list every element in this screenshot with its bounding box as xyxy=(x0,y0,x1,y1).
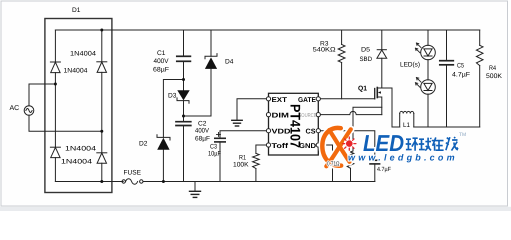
svg-text:R4: R4 xyxy=(489,65,496,72)
pin VDD terminal xyxy=(266,129,270,133)
wire: SOURCE pin to Q1 source (with hop) xyxy=(320,111,381,114)
inductor L1 xyxy=(400,111,414,127)
svg-text:EXT: EXT xyxy=(272,97,288,104)
capacitor C5 xyxy=(440,30,454,127)
diode D5 SBD xyxy=(377,30,387,88)
svg-text:D2: D2 xyxy=(139,141,148,148)
red starburst xyxy=(343,137,356,150)
capacitor C1 xyxy=(177,30,191,80)
fuse xyxy=(122,179,143,184)
wire: LED1-LED2 xyxy=(427,60,429,81)
svg-text:500K: 500K xyxy=(486,73,503,80)
pin DIM terminal xyxy=(266,113,270,117)
IC pin circles xyxy=(266,97,320,147)
wire: bridge inner top xyxy=(55,29,101,31)
svg-text:4.7µF: 4.7µF xyxy=(452,72,470,79)
pin EXT terminal xyxy=(266,97,270,101)
svg-text:10µF: 10µF xyxy=(208,151,221,158)
svg-text:400V: 400V xyxy=(154,58,170,65)
svg-text:D1: D1 xyxy=(72,7,81,14)
svg-text:68µF: 68µF xyxy=(195,136,210,143)
svg-text:0.71Ω: 0.71Ω xyxy=(327,161,340,168)
pin Toff terminal xyxy=(266,143,270,147)
pin CS terminal xyxy=(316,129,320,133)
diode D4 (zener, filled) xyxy=(205,30,217,69)
svg-text:4.7µF: 4.7µF xyxy=(377,166,391,173)
bottom gray strip xyxy=(0,207,511,211)
diode 1N4004 bottom-right xyxy=(97,153,107,163)
wire: sense branch from source node xyxy=(351,107,382,152)
wire: bridge inner left vertical xyxy=(54,30,56,62)
bridge rectifier box D1 xyxy=(45,19,112,193)
LED2 xyxy=(415,78,435,95)
node: bridge + output junction xyxy=(100,29,103,32)
wire: GND pin to rail xyxy=(320,145,332,182)
diode 1N4004 top-left xyxy=(50,62,60,73)
svg-text:C2: C2 xyxy=(198,121,207,128)
wire: CS pin to filter cap xyxy=(320,131,374,161)
svg-text:C5: C5 xyxy=(457,63,464,70)
logo X orange swooshes xyxy=(322,128,341,166)
node: AC live to bridge left leg xyxy=(54,83,57,86)
wire: AC top lead xyxy=(29,84,55,106)
svg-text:Q1: Q1 xyxy=(358,86,367,93)
svg-text:D5: D5 xyxy=(361,47,370,54)
svg-text:LED(s): LED(s) xyxy=(400,62,420,69)
wire: LED bottom rail xyxy=(414,126,480,128)
watermark texts xyxy=(348,130,458,163)
resistor R2 0.71ohm xyxy=(347,152,354,182)
IC U1 PT4107 box xyxy=(269,93,319,155)
svg-text:400V: 400V xyxy=(195,128,210,135)
diode D2 (zener, filled) xyxy=(157,135,170,182)
svg-text:1N4004: 1N4004 xyxy=(65,146,96,153)
wire: LED string bottom xyxy=(427,94,429,127)
transistor Q1 (NMOS) xyxy=(375,88,382,115)
resistor R1 xyxy=(253,145,267,182)
wire: bottom ground rail xyxy=(143,181,375,183)
node: C1/D3/D2 junction xyxy=(182,78,185,81)
svg-text:www.ledgb.com: www.ledgb.com xyxy=(348,153,458,163)
svg-text:GATE: GATE xyxy=(298,97,316,104)
wire: GATE to Q1 gate xyxy=(320,98,374,100)
pin GND terminal xyxy=(316,143,320,147)
svg-text:1N4004: 1N4004 xyxy=(70,51,96,58)
chinese glyphs 环球在线 (drawn) xyxy=(406,137,458,151)
svg-text:AC: AC xyxy=(10,105,20,112)
svg-text:R1: R1 xyxy=(239,155,246,162)
svg-text:SBD: SBD xyxy=(360,56,373,63)
svg-text:TM: TM xyxy=(459,132,466,138)
IC pin labels xyxy=(272,97,317,150)
node: D3/D4/C2 junction xyxy=(182,115,185,118)
wire: bridge inner right vertical xyxy=(101,30,103,62)
wire: bridge inner bottom xyxy=(55,181,123,183)
node: bridge - output junction xyxy=(100,180,103,183)
svg-text:C3: C3 xyxy=(210,144,217,151)
diode 1N4004 bottom-left xyxy=(50,147,60,157)
wire: main top rail xyxy=(102,29,480,31)
capacitor C2 xyxy=(176,116,191,182)
ground (main rail) xyxy=(190,182,201,198)
svg-text:100K: 100K xyxy=(233,162,249,169)
diode 1N4004 top-right xyxy=(97,62,107,73)
svg-text:D4: D4 xyxy=(225,59,234,66)
svg-text:D3: D3 xyxy=(168,93,177,100)
node: AC neutral to bridge right leg xyxy=(100,130,103,133)
wire: AC bottom lead xyxy=(29,115,102,131)
capacitor C3 (electrolytic) xyxy=(215,131,267,182)
svg-text:L1: L1 xyxy=(403,122,410,129)
diode D3 (zener, filled) xyxy=(177,80,190,117)
LED1 xyxy=(415,30,435,60)
svg-text:1N4004: 1N4004 xyxy=(64,68,88,75)
capacitor C4 4.7uF xyxy=(370,160,380,181)
svg-text:CS: CS xyxy=(306,129,316,136)
wire: drain to L1 xyxy=(382,88,400,127)
wire: D4 branch elbow xyxy=(184,69,212,116)
resistor R3 xyxy=(338,30,345,99)
pin GATE terminal xyxy=(316,97,320,101)
svg-text:PT4107: PT4107 xyxy=(288,104,304,148)
svg-text:1N4004: 1N4004 xyxy=(61,159,92,166)
svg-text:FUSE: FUSE xyxy=(124,170,142,177)
resistor R4 xyxy=(476,30,483,127)
svg-text:540KΩ: 540KΩ xyxy=(313,47,336,54)
svg-text:DIM: DIM xyxy=(272,113,290,120)
ground (EXT pin) xyxy=(232,99,267,126)
pin SOURCE terminal xyxy=(316,113,320,117)
svg-text:C1: C1 xyxy=(157,50,166,57)
svg-text:68µF: 68µF xyxy=(153,67,169,74)
wire: branch to D2 xyxy=(163,80,183,138)
svg-text:Toff: Toff xyxy=(272,142,289,150)
junction dots xyxy=(54,29,185,184)
AC source xyxy=(24,106,34,116)
node: D2 anode on ground rail xyxy=(162,180,165,183)
